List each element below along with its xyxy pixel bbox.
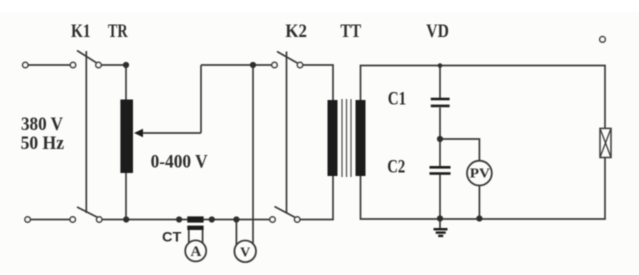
svg-text:K1: K1	[71, 22, 91, 42]
svg-text:VD: VD	[426, 22, 449, 42]
svg-text:V: V	[240, 245, 250, 260]
svg-text:380 V: 380 V	[21, 115, 64, 135]
svg-text:0-400 V: 0-400 V	[151, 152, 209, 172]
svg-text:CT: CT	[162, 230, 182, 245]
svg-text:A: A	[190, 244, 201, 260]
svg-text:C2: C2	[387, 157, 405, 177]
svg-text:TR: TR	[108, 22, 128, 42]
svg-text:TT: TT	[340, 22, 361, 42]
svg-text:50 Hz: 50 Hz	[21, 134, 64, 154]
svg-text:C1: C1	[388, 90, 406, 110]
svg-text:K2: K2	[285, 22, 307, 42]
svg-text:PV: PV	[470, 166, 490, 181]
